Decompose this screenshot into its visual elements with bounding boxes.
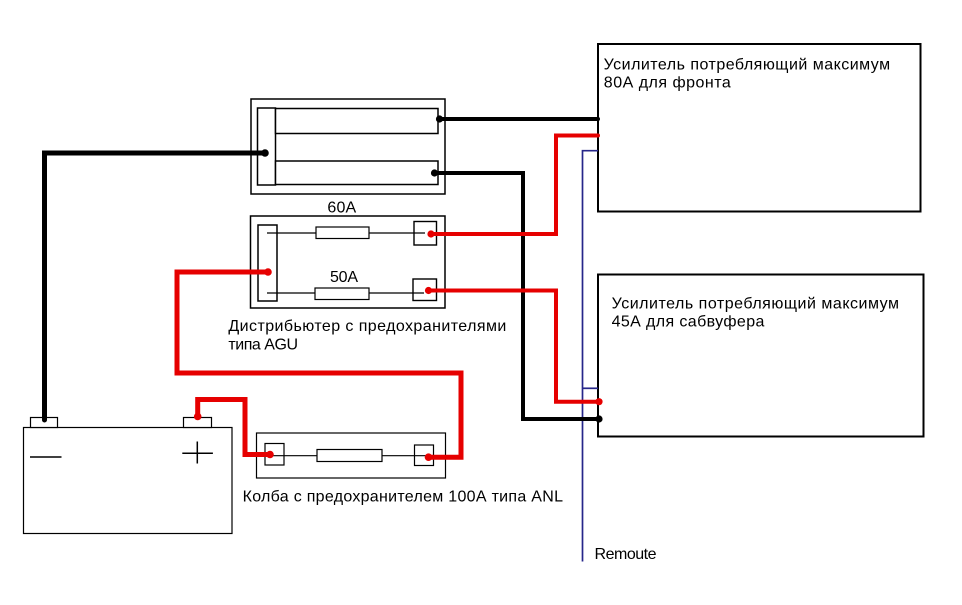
wire black battery negative to 60A distribution block	[45, 153, 266, 420]
fuse 100A ANL element	[317, 450, 382, 462]
wire blue remote stub to subwoofer amplifier	[583, 387, 599, 389]
AGU bottom fuse line	[267, 292, 424, 294]
AGU fuse distributor outer case	[251, 216, 446, 308]
AGU top output terminal	[414, 222, 437, 246]
AGU top fuse line	[267, 232, 425, 234]
wire red AGU 60A fuse output to front amplifier	[431, 136, 598, 235]
ANL left terminal	[265, 444, 284, 466]
svg-text:Дистрибьютер с предохранителям: Дистрибьютер с предохранителями	[228, 318, 506, 335]
ANL holder internal line	[270, 455, 428, 457]
60A block bottom bus bar	[276, 161, 439, 185]
subwoofer amplifier box U2	[598, 275, 924, 437]
wire black 60A block bottom bus to subwoofer amplifier	[435, 173, 600, 419]
svg-text:Колба с предохранителем 100А т: Колба с предохранителем 100А типа ANL	[243, 489, 563, 506]
battery positive terminal post	[184, 418, 212, 428]
svg-text:Усилитель потребляющий максиму: Усилитель потребляющий максимум	[604, 57, 891, 74]
wire red AGU 50A fuse output to subwoofer amplifier	[429, 291, 600, 402]
ANL right terminal	[415, 445, 434, 466]
wire blue remote from front amplifier down	[583, 151, 599, 562]
svg-text:Усилитель потребляющий максиму: Усилитель потребляющий максимум	[612, 295, 899, 312]
svg-text:80А для фронта: 80А для фронта	[604, 75, 731, 92]
AGU bottom output terminal	[413, 279, 437, 301]
fuse 50A element	[315, 288, 369, 300]
battery case	[24, 428, 233, 534]
wire red battery positive to ANL fuse holder input	[198, 400, 270, 455]
svg-text:50А: 50А	[330, 269, 358, 286]
front amplifier box U1	[598, 44, 921, 212]
battery minus sign	[30, 456, 62, 458]
battery plus sign	[182, 452, 213, 454]
battery negative terminal post	[31, 418, 58, 428]
fuse 60A element	[316, 227, 369, 239]
60A block input bar	[258, 108, 276, 185]
svg-text:Remoute: Remoute	[595, 546, 657, 563]
svg-text:60А: 60А	[327, 199, 356, 216]
svg-text:45А для сабвуфера: 45А для сабвуфера	[612, 314, 765, 331]
AGU distributor input bar	[258, 225, 277, 301]
60A block top bus bar	[276, 109, 439, 134]
wire black 60A block top bus to front amplifier	[439, 117, 598, 121]
ANL fuse holder case	[257, 433, 446, 478]
wire red ANL fuse holder output to AGU distributor input	[177, 272, 461, 457]
svg-text:типа AGU: типа AGU	[228, 337, 298, 354]
distribution block 60A (top) outer case	[251, 99, 445, 194]
